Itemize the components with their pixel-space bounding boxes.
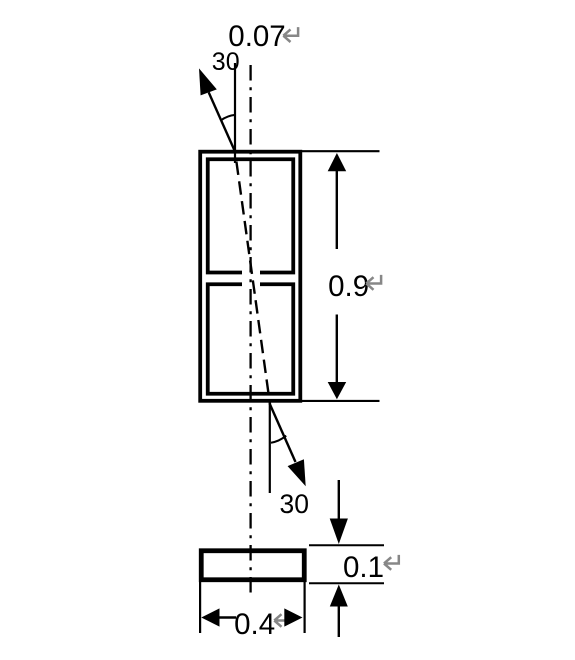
bottom vertical reference line	[269, 403, 271, 493]
dim 0.4 left shaft	[219, 616, 236, 618]
extension line bottom 0.9	[301, 400, 380, 402]
return mark after 0.07	[283, 27, 298, 42]
svg-text:0.1: 0.1	[343, 551, 384, 584]
dim 0.9 down arrow	[328, 382, 347, 399]
svg-text:0.4: 0.4	[234, 608, 275, 641]
dim 0.1 bottom up-arrow shaft	[338, 606, 340, 638]
svg-text:30: 30	[280, 489, 309, 519]
bottom angle arrowhead	[288, 459, 306, 486]
dim 0.9 upper shaft	[336, 170, 338, 249]
extension line bottom 0.1	[309, 582, 384, 584]
dim 0.9 lower shaft	[336, 315, 338, 384]
dim 0.1 top down-arrow shaft	[338, 480, 340, 520]
return mark after 0.4	[274, 612, 289, 627]
vertical reference line top	[234, 63, 236, 163]
bottom angle arrow shaft	[270, 404, 296, 462]
bottom angle arc	[271, 436, 286, 443]
svg-text:0.07: 0.07	[228, 20, 285, 53]
centerline dash-dot	[249, 65, 251, 597]
return mark after 0.9	[366, 275, 381, 290]
extension line top 0.1	[309, 544, 384, 546]
small pad rectangle	[201, 551, 304, 580]
dim 0.4 left arrowhead	[201, 608, 219, 626]
extension line right 0.4	[304, 582, 306, 633]
extension line top 0.9	[301, 150, 380, 152]
outer case rectangle	[200, 152, 300, 401]
dim 0.1 bottom up-arrow head	[330, 585, 348, 607]
top angle arrow shaft	[209, 92, 235, 151]
dim 0.1 top down-arrow head	[330, 519, 348, 545]
extension line left 0.4	[199, 582, 201, 633]
inner lid top half (gap in bottom edge)	[208, 159, 294, 272]
inner lid bottom half (gap in top edge)	[208, 284, 294, 394]
dim 0.4 right arrowhead	[284, 608, 302, 626]
return mark after 0.1	[384, 555, 399, 570]
top angle arrowhead	[199, 68, 217, 95]
svg-text:0.9: 0.9	[328, 270, 369, 303]
tilted axis dashed line	[236, 162, 270, 405]
top angle arc	[221, 115, 235, 120]
dim 0.9 up arrow	[328, 153, 347, 171]
